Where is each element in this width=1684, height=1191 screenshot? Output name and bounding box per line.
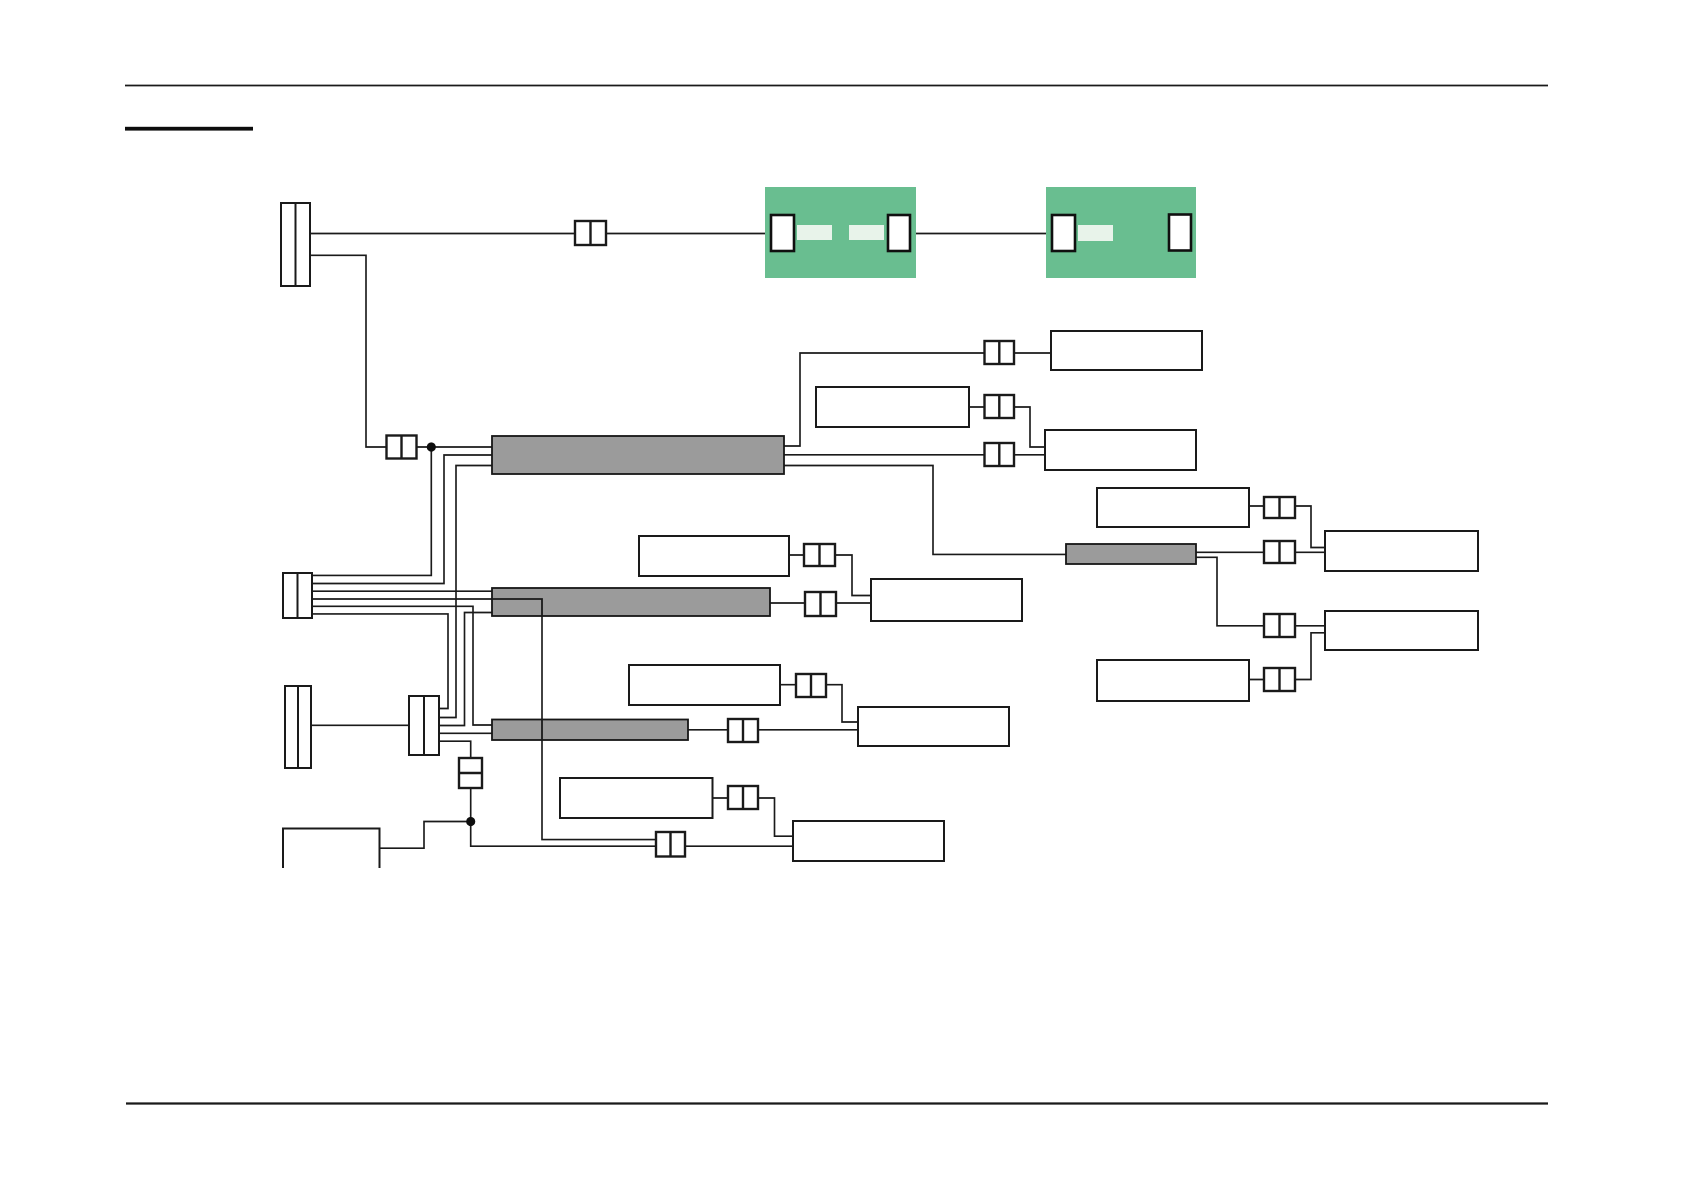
wire module M2 to module M3 via inline connector xyxy=(969,407,1045,447)
wire harness H4 (gray) xyxy=(1066,544,1196,564)
battery box (open bottom) xyxy=(283,829,380,869)
PCB1 pad label 2 xyxy=(849,225,884,240)
PCB2 pad label xyxy=(1078,225,1113,241)
inline connector from harness H2 xyxy=(805,592,836,616)
wire module M4a to module M4b via inline connector xyxy=(789,555,871,596)
wire node N1 down to connector CN-C pin1 xyxy=(312,447,431,575)
wire harness H2 to module M4b via inline connector xyxy=(770,602,871,604)
PCB1 (green board) xyxy=(765,187,916,278)
connector CN-C (left) xyxy=(283,573,312,618)
inner wire through harness H2 xyxy=(492,599,542,616)
PCB2 (green board) xyxy=(1046,187,1196,278)
inline connector CN-K xyxy=(656,832,685,857)
module R3 xyxy=(1325,611,1478,650)
inline connector to module R2 xyxy=(1264,541,1295,563)
PCB1 pad label 1 xyxy=(797,225,832,240)
module M2 xyxy=(816,387,969,427)
wire CN-C pin4 through harness H2 down to inline connector CN-K xyxy=(312,599,656,840)
connector CN-D (lower left) xyxy=(285,686,311,768)
wire CN-E pin2 to harness H1 xyxy=(439,466,492,718)
wire harness H1 to module M1 via inline connector xyxy=(784,353,1051,446)
wire harness H1 to harness H4 xyxy=(784,466,1066,555)
wire harness H4 branch to module R3 via inline connector xyxy=(1196,557,1325,626)
module M5 xyxy=(629,665,780,705)
wire CN-A branch down to inline connector CN-B xyxy=(310,255,492,447)
PCB1 pin right xyxy=(888,215,910,251)
module M3 xyxy=(1045,430,1196,470)
wire node N2 to battery box xyxy=(380,822,471,849)
inline connector to module M1 xyxy=(985,341,1015,364)
module M1 xyxy=(1051,331,1202,370)
wire CN-E pin4 to harness H3 xyxy=(439,732,492,734)
wire crossing harness H3 xyxy=(541,720,543,741)
wire module M7 to module M8 via connector CN-J xyxy=(713,798,793,836)
wire CN-E pin3 to harness H2 xyxy=(439,613,492,726)
wire harness H1 to module M3 via inline connector xyxy=(784,454,1045,456)
inline connector from module M2 xyxy=(985,395,1015,418)
wire node N2 through inline connector CN-K to module M8 xyxy=(471,822,793,847)
header rule xyxy=(125,85,1548,87)
wire harness H2 (gray) xyxy=(492,588,770,616)
module M4b xyxy=(871,579,1022,621)
junction node N2 xyxy=(466,817,475,826)
connector CN-A (top left) xyxy=(281,203,310,286)
wire module R4 to module R3 via inline connector xyxy=(1249,633,1325,680)
wire CN-E pin5 down through inline connector CN-F to node N2 xyxy=(439,741,471,821)
inline connector from module R4 xyxy=(1264,668,1295,691)
wire CN-A to inline connector to PCB1 xyxy=(310,233,771,235)
PCB2 pin right xyxy=(1169,215,1191,251)
wire PCB1 to PCB2 xyxy=(910,233,1052,235)
module M8 xyxy=(793,821,944,861)
wire harness H3 to module M6 via connector CN-I xyxy=(688,729,858,731)
redraw crossing wire over harness H3 xyxy=(541,719,543,742)
PCB1 pin left xyxy=(771,215,794,251)
inline connector from module M4a xyxy=(804,544,835,566)
module R2 xyxy=(1325,531,1478,571)
inline connector on PCB wire xyxy=(575,221,606,245)
junction node N1 xyxy=(427,442,436,451)
footer rule xyxy=(126,1102,1548,1104)
wire CN-C pin2 to harness H1 xyxy=(312,455,492,584)
inline connector CN-J xyxy=(728,786,758,809)
wire harness H1 (gray) xyxy=(492,436,784,474)
module M6 xyxy=(858,707,1009,746)
inline connector CN-F (vertical) xyxy=(459,758,482,788)
inline connector CN-H xyxy=(796,674,826,697)
inline connector to module M3 xyxy=(985,443,1015,466)
wire module R1 to module R2 via inline connector xyxy=(1249,506,1325,548)
inline connector to module R3 xyxy=(1264,614,1295,637)
wire connector CN-D to connector CN-E xyxy=(311,724,409,726)
wire CN-C pin3 to harness H2 xyxy=(312,590,492,592)
module R1 xyxy=(1097,488,1249,527)
wire CN-C pin6 to connector CN-E pin1 xyxy=(312,614,448,709)
title underline xyxy=(125,127,253,131)
wire CN-C pin5 to harness H3 xyxy=(312,606,492,725)
module M4a xyxy=(639,536,789,576)
connector CN-E (middle) xyxy=(409,696,439,755)
wire harness H4 to module R2 via inline connector xyxy=(1196,551,1325,553)
module R4 xyxy=(1097,660,1249,701)
inline connector from module R1 xyxy=(1264,497,1295,518)
inline connector CN-I xyxy=(728,719,758,742)
wire module M5 to module M6 via connector CN-H xyxy=(780,685,858,722)
PCB2 pin left xyxy=(1052,215,1075,251)
module M7 xyxy=(560,778,713,818)
wire harness H3 (gray) xyxy=(492,720,688,741)
inline connector CN-B xyxy=(387,436,417,459)
